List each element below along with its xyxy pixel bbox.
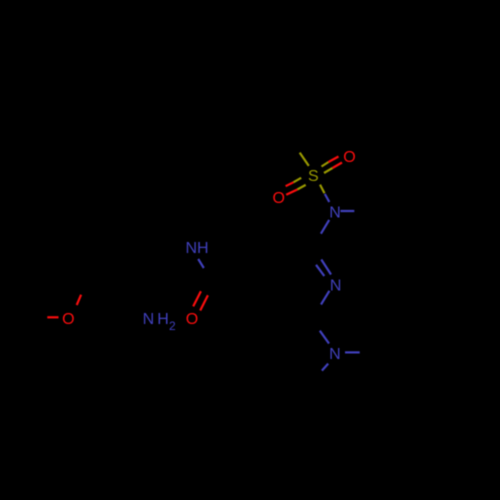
svg-text:O: O: [186, 311, 198, 328]
svg-text:2: 2: [169, 319, 176, 333]
svg-text:S: S: [308, 168, 319, 185]
svg-text:O: O: [343, 149, 355, 166]
svg-text:O: O: [272, 190, 284, 207]
svg-text:NH: NH: [186, 240, 209, 257]
svg-text:N: N: [330, 277, 342, 294]
svg-text:N: N: [329, 205, 341, 222]
svg-text:N: N: [143, 311, 155, 328]
svg-text:H: H: [157, 311, 169, 328]
svg-text:N: N: [329, 346, 341, 363]
svg-text:O: O: [62, 311, 74, 328]
